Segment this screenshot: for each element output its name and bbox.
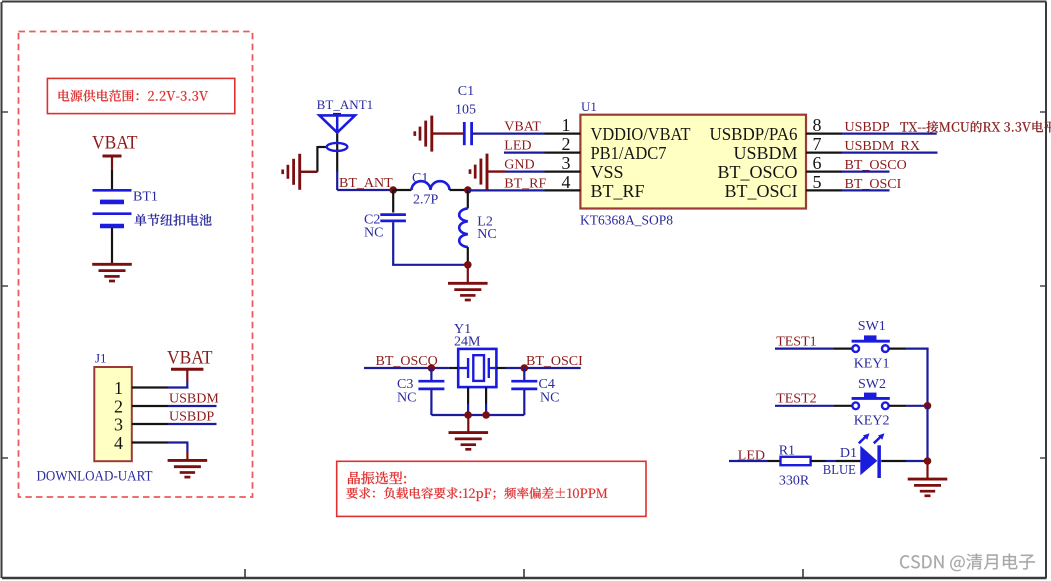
- svg-text:USBDM: USBDM: [169, 392, 219, 407]
- svg-text:330R: 330R: [779, 473, 810, 488]
- svg-text:KEY1: KEY1: [854, 356, 890, 371]
- wire: [889, 348, 907, 350]
- net label USBDP + wire: [842, 120, 937, 135]
- note box: crystal selection requirements: [337, 461, 646, 516]
- svg-text:PB1/ADC7: PB1/ADC7: [591, 143, 667, 163]
- pin 3: [545, 153, 581, 173]
- wire pin3: [132, 423, 168, 425]
- pin 2: [545, 134, 581, 154]
- net label BT_RF + wire: [468, 177, 547, 192]
- wire C3 to rail: [430, 390, 432, 415]
- wire antenna stem: [336, 134, 338, 172]
- svg-text:KT6368A_SOP8: KT6368A_SOP8: [580, 212, 673, 227]
- net label TEST2 + wire: [775, 392, 834, 407]
- svg-text:NC: NC: [540, 391, 559, 406]
- capacitor C3 NC: [397, 377, 444, 406]
- svg-text:BT_ANT: BT_ANT: [339, 176, 393, 191]
- pin 7: [806, 134, 842, 154]
- svg-text:USBDM: USBDM: [733, 143, 797, 163]
- inductor L2 NC: [459, 208, 497, 247]
- svg-text:4: 4: [562, 172, 571, 192]
- ground (crystal): [449, 415, 489, 449]
- node junction rail right: [482, 411, 490, 419]
- node junction C4: [521, 364, 529, 372]
- wire crystal right: [496, 367, 505, 369]
- wire rail down: [926, 349, 928, 406]
- svg-text:RX: RX: [901, 139, 920, 154]
- capacitor C1 105: [455, 84, 476, 145]
- watermark CSDN @清月电子: [900, 554, 1035, 572]
- net label LED + wire: [504, 139, 545, 154]
- wire VBAT to pin1: [472, 133, 545, 135]
- wire pin4: [132, 441, 168, 443]
- svg-text:DOWNLOAD-UART: DOWNLOAD-UART: [37, 468, 153, 484]
- svg-text:NC: NC: [477, 227, 496, 242]
- wire: [834, 348, 852, 350]
- svg-text:BT_ANT1: BT_ANT1: [317, 98, 374, 112]
- svg-text:U1: U1: [581, 99, 597, 114]
- power-section dashed outline: [19, 32, 253, 498]
- svg-text:SW1: SW1: [858, 319, 886, 334]
- svg-text:USBDP/PA6: USBDP/PA6: [710, 124, 798, 144]
- svg-text:VBAT: VBAT: [504, 120, 541, 135]
- svg-text:24M: 24M: [454, 335, 481, 350]
- ground (battery): [92, 263, 132, 282]
- svg-text:BT_OSCI: BT_OSCI: [526, 354, 583, 369]
- svg-text:2: 2: [114, 396, 123, 416]
- wire pin2: [132, 405, 168, 407]
- node junction rail left: [464, 411, 472, 419]
- svg-text:SW2: SW2: [858, 377, 886, 392]
- ground (C1 105): [415, 116, 464, 152]
- ground (pi network): [448, 265, 488, 300]
- connector J1 DOWNLOAD-UART: [37, 351, 153, 485]
- battery BT1: [93, 190, 212, 227]
- svg-text:BT_RF: BT_RF: [591, 181, 645, 201]
- wire C4 stem: [523, 368, 525, 381]
- svg-text:BLUE: BLUE: [823, 463, 856, 478]
- wire L2 stem: [467, 190, 469, 208]
- svg-text:KEY2: KEY2: [854, 414, 890, 429]
- svg-text:BT_OSCI: BT_OSCI: [724, 181, 797, 201]
- wire: [768, 460, 781, 462]
- wire: [881, 460, 906, 462]
- wire crystal bottom stems: [467, 387, 469, 404]
- net label TEST1 + wire: [775, 335, 834, 350]
- wire: [393, 189, 411, 191]
- svg-text:C1: C1: [412, 171, 428, 186]
- svg-text:6: 6: [813, 153, 822, 173]
- wire crystal left: [449, 367, 458, 369]
- svg-text:NC: NC: [397, 391, 416, 406]
- svg-text:J1: J1: [95, 351, 107, 366]
- wire ground rail: [431, 414, 524, 416]
- net label GND + wire: [504, 158, 544, 173]
- svg-text:2.7P: 2.7P: [413, 193, 439, 208]
- node junction LED rail: [924, 457, 932, 465]
- ground (J1 pin4): [168, 452, 208, 477]
- svg-text:5: 5: [813, 172, 822, 192]
- svg-text:7: 7: [813, 134, 822, 154]
- wire: [111, 228, 113, 263]
- svg-text:NC: NC: [364, 226, 383, 241]
- svg-text:1: 1: [562, 115, 571, 135]
- svg-text:VSS: VSS: [591, 162, 624, 182]
- pin 5: [806, 172, 842, 192]
- wire: [889, 405, 907, 407]
- pin 8: [806, 115, 842, 135]
- power port VBAT (J1): [167, 348, 213, 383]
- svg-text:4: 4: [114, 433, 123, 453]
- wire rail down: [926, 406, 928, 461]
- pin 4: [545, 172, 581, 192]
- wire: [834, 405, 852, 407]
- node BT_ANT junction: [389, 186, 397, 194]
- svg-text:VBAT: VBAT: [92, 133, 138, 154]
- node junction (BT_RF): [464, 186, 472, 194]
- svg-text:TEST2: TEST2: [776, 392, 816, 407]
- net label LED + wire: [729, 449, 768, 464]
- ground (GND pin): [470, 154, 505, 190]
- svg-text:TEST1: TEST1: [776, 335, 816, 350]
- node junction C3: [428, 364, 436, 372]
- wire C2 stem: [392, 190, 394, 213]
- capacitor C2 NC: [364, 213, 406, 241]
- switch SW1 KEY1: [852, 319, 890, 371]
- LED D1 BLUE: [823, 433, 885, 478]
- ground (LED rail): [908, 461, 948, 496]
- net label BT_OSCO + wire: [842, 158, 907, 173]
- antenna BT_ANT1: [317, 98, 374, 134]
- antenna feed ellipse: [327, 143, 348, 151]
- wire: [111, 170, 113, 190]
- svg-text:105: 105: [455, 103, 476, 118]
- crystal Y1 24M: [454, 322, 496, 387]
- net label BT_OSCI + wire: [842, 177, 902, 192]
- power port VBAT (battery): [92, 133, 138, 171]
- svg-text:1: 1: [114, 378, 123, 398]
- wire: [450, 189, 468, 191]
- wire C2 to rail: [392, 222, 394, 265]
- wire antenna to BT_ANT node: [336, 171, 338, 190]
- node junction TEST2 rail: [924, 402, 932, 410]
- net label USBDM + wire: [842, 139, 938, 154]
- svg-text:C1: C1: [458, 84, 474, 99]
- svg-text:BT_OSCO: BT_OSCO: [717, 162, 797, 182]
- svg-text:2: 2: [562, 134, 571, 154]
- wire pin1: [132, 386, 168, 388]
- svg-text:BT_RF: BT_RF: [504, 177, 546, 192]
- wire C3 stem: [430, 368, 432, 381]
- svg-text:3: 3: [114, 414, 123, 434]
- svg-text:3: 3: [562, 153, 571, 173]
- svg-text:VDDIO/VBAT: VDDIO/VBAT: [591, 124, 691, 144]
- switch SW2 KEY2: [852, 377, 890, 429]
- inductor-style element C1 2.7P: [412, 171, 450, 208]
- wire C4 to rail: [523, 390, 525, 415]
- wire: [467, 247, 469, 263]
- svg-text:USBDP: USBDP: [169, 410, 214, 425]
- note box: power supply range 2.2V-3.3V: [47, 78, 234, 113]
- annotation TX--接MCU的RX 3.3V电平: [900, 121, 1051, 133]
- svg-text:BT1: BT1: [133, 190, 158, 205]
- capacitor C4 NC: [511, 377, 559, 406]
- wire: [811, 460, 826, 462]
- IC U1 KT6368A_SOP8: [580, 99, 806, 227]
- pin 6: [806, 153, 842, 173]
- node junction (pi network gnd): [464, 261, 472, 269]
- svg-text:D1: D1: [840, 446, 857, 461]
- svg-text:8: 8: [813, 115, 822, 135]
- svg-text:GND: GND: [504, 158, 534, 173]
- svg-text:LED: LED: [504, 139, 531, 154]
- ground (antenna): [283, 154, 318, 190]
- pin 1: [545, 115, 581, 135]
- wire to antenna ground: [317, 146, 325, 148]
- svg-text:VBAT: VBAT: [167, 348, 213, 369]
- resistor R1 330R: [779, 444, 811, 489]
